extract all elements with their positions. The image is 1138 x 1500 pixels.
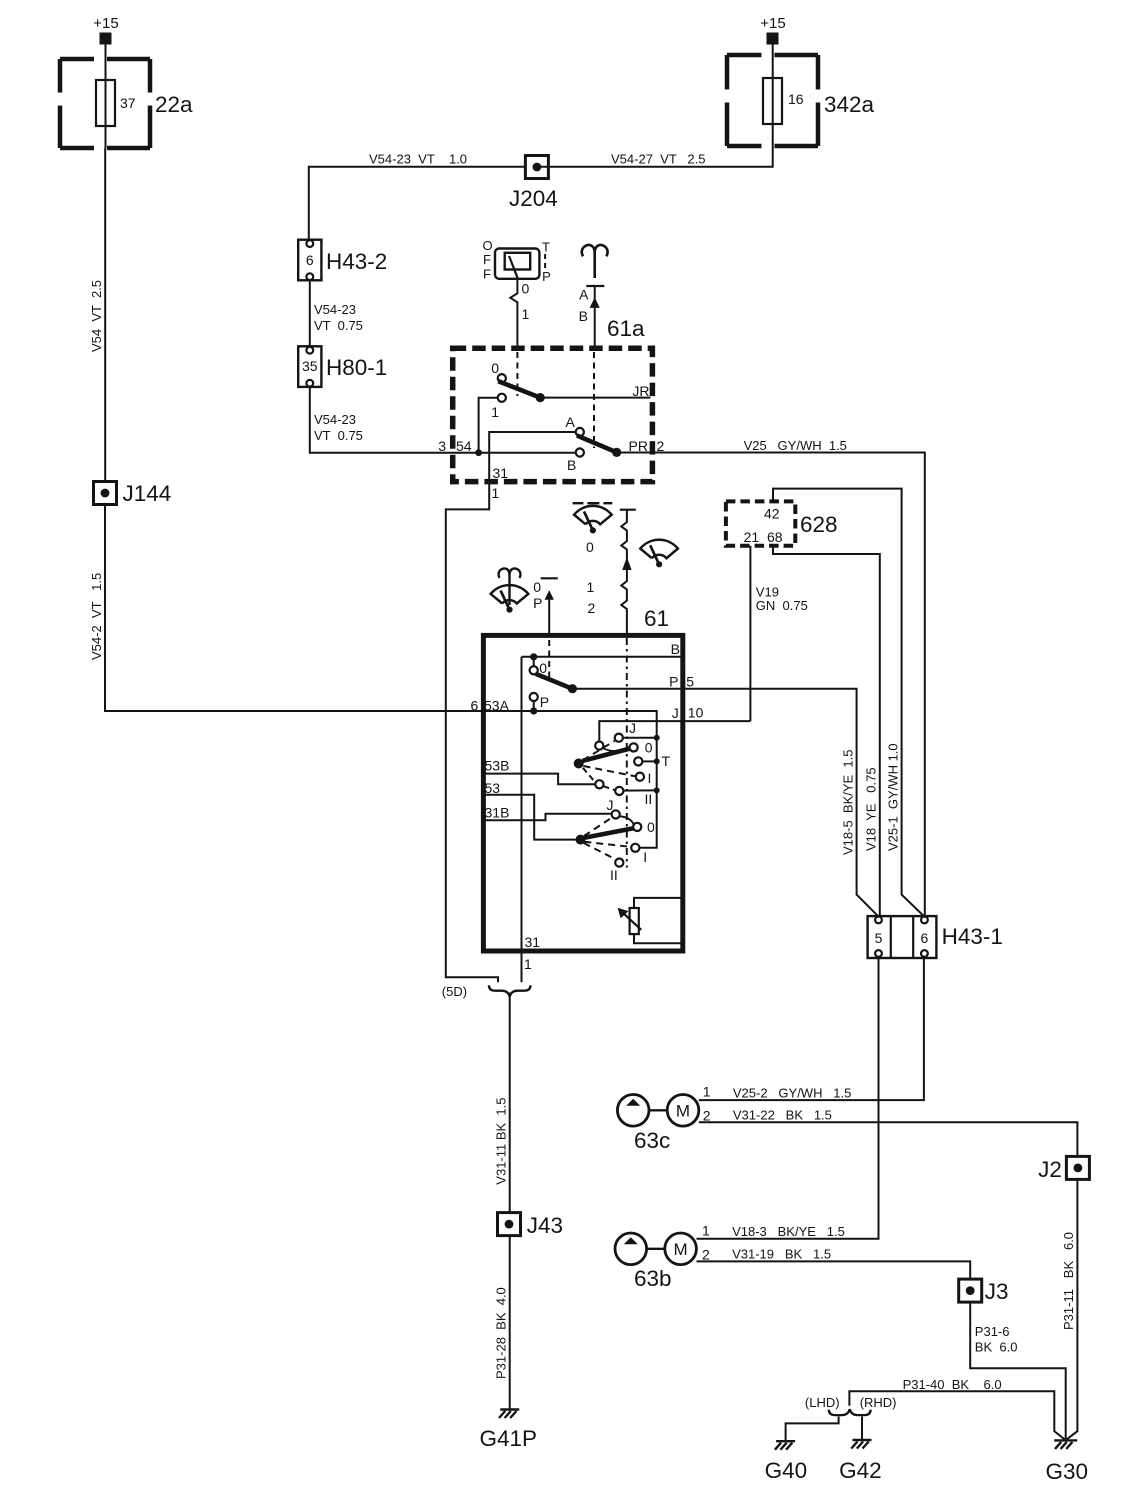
svg-text:G40: G40 (765, 1458, 808, 1483)
fuse box 22a (105, 59, 107, 148)
svg-text:P31-40 BK 6.0: P31-40 BK 6.0 (903, 1377, 1002, 1392)
fuse box 342a (772, 55, 774, 146)
svg-text:1: 1 (522, 306, 530, 322)
washer pump / wiper motor 63c (617, 1095, 649, 1127)
wire V31-11 BK 1.5 (509, 993, 511, 1213)
svg-text:10: 10 (688, 705, 704, 721)
svg-text:37: 37 (120, 95, 136, 111)
svg-text:J204: J204 (509, 186, 558, 211)
connector H80-1 (298, 346, 321, 387)
svg-text:V18-3 BK/YE 1.5: V18-3 BK/YE 1.5 (732, 1224, 845, 1239)
B line (522, 656, 683, 658)
svg-text:JR: JR (632, 383, 649, 399)
node B junction (530, 653, 537, 660)
svg-text:0: 0 (522, 281, 530, 297)
wire 628 pin68 V18 YE 0.75 (773, 546, 880, 917)
wiper symbol (single speed) (640, 540, 678, 558)
linkage (dashed) wash (548, 640, 550, 677)
svg-text:61a: 61a (607, 316, 645, 341)
53B line (483, 774, 595, 785)
rail junction J (654, 735, 660, 741)
svg-text:V54-27 VT 2.5: V54-27 VT 2.5 (611, 152, 705, 167)
wire V25 GY/WH 1.5 (652, 453, 924, 917)
wire P31-40 BK 6.0 (849, 1391, 1065, 1439)
svg-text:5: 5 (686, 674, 694, 690)
svg-text:II: II (645, 791, 653, 807)
ground G41P (500, 1408, 519, 1410)
svg-text:B: B (567, 457, 576, 473)
svg-text:V54-23 VT 1.0: V54-23 VT 1.0 (369, 152, 467, 167)
wire 61a pin31 to (5D) (446, 482, 498, 983)
rail 31 (left) (521, 657, 523, 951)
svg-text:63b: 63b (634, 1266, 672, 1291)
svg-text:A: A (579, 287, 589, 303)
junction J144 (94, 482, 117, 505)
svg-text:0: 0 (491, 360, 499, 376)
svg-text:1: 1 (524, 956, 532, 972)
wire V54 VT 2.5 (104, 148, 106, 482)
svg-text:V25-1 GY/WH 1.0: V25-1 GY/WH 1.0 (886, 743, 901, 851)
wire V54-27 VT 2.5 (537, 146, 773, 167)
wiper symbol (intermittent, parked) (573, 502, 584, 504)
svg-text:V54-23: V54-23 (314, 302, 356, 317)
svg-text:J2: J2 (1038, 1157, 1062, 1182)
svg-text:V25-2 GY/WH 1.5: V25-2 GY/WH 1.5 (733, 1086, 852, 1101)
svg-text:P31-6: P31-6 (975, 1324, 1010, 1339)
ground G30 (1054, 1439, 1077, 1441)
wire V25-2 GY/WH 1.5 (63c pin1 to H43-1 pin6) (699, 957, 924, 1100)
svg-text:5: 5 (875, 930, 883, 946)
svg-text:VT 0.75: VT 0.75 (314, 428, 363, 443)
junction J43 (498, 1213, 521, 1236)
svg-text:P: P (533, 595, 542, 611)
ground G40 (776, 1440, 795, 1442)
wire 628 pin42 V25-1 GY/WH 1.0 (773, 489, 924, 917)
svg-text:P31-11 BK 6.0: P31-11 BK 6.0 (1061, 1232, 1076, 1330)
linkage (dashed) from stalk (593, 352, 595, 448)
wire P31-28 BK 4.0 (509, 1236, 511, 1409)
svg-text:M: M (674, 1240, 688, 1259)
svg-text:53: 53 (485, 780, 501, 796)
svg-text:6: 6 (921, 930, 929, 946)
washer/wiper symbol (491, 585, 529, 603)
wire V31-22 BK 1.5 (63c pin2 to J2) (699, 1122, 1078, 1157)
svg-text:V31-22 BK 1.5: V31-22 BK 1.5 (733, 1108, 832, 1123)
svg-text:P: P (540, 694, 549, 710)
wire V54-23 VT 0.75 (lower) (310, 387, 576, 453)
svg-text:1: 1 (702, 1222, 710, 1238)
svg-text:6: 6 (471, 698, 479, 714)
svg-text:35: 35 (302, 358, 318, 374)
wire with detent 0/1 to 61a (510, 279, 517, 348)
relay box 61a (453, 348, 653, 481)
junction J3 (959, 1279, 982, 1302)
wire V54-23 VT 0.75 (upper) (309, 280, 311, 346)
svg-text:B: B (579, 308, 588, 324)
svg-text:I: I (648, 770, 652, 786)
svg-text:PR: PR (629, 438, 648, 454)
svg-text:T: T (662, 753, 671, 769)
wash switch in 61 (533, 657, 535, 667)
svg-text:V31-19 BK 1.5: V31-19 BK 1.5 (732, 1247, 831, 1262)
svg-text:G42: G42 (839, 1458, 882, 1483)
svg-text:+15: +15 (760, 15, 785, 32)
svg-text:O: O (482, 238, 492, 253)
svg-text:31: 31 (525, 934, 541, 950)
svg-text:63c: 63c (634, 1128, 670, 1153)
rail junction T (654, 758, 660, 764)
svg-text:53A: 53A (484, 698, 510, 714)
svg-text:A: A (566, 414, 576, 430)
svg-text:V31-11 BK 1.5: V31-11 BK 1.5 (494, 1097, 509, 1184)
linkage (dashed) from detent switch (516, 352, 518, 396)
svg-text:22a: 22a (155, 92, 193, 117)
P-5 line (572, 688, 682, 690)
wire 61 pin5 to H43-1 pin5 (683, 689, 879, 917)
svg-text:42: 42 (764, 506, 780, 522)
wire contact A to pin 31 (489, 432, 576, 482)
svg-text:F: F (483, 252, 491, 267)
svg-text:V54 VT 2.5: V54 VT 2.5 (89, 280, 104, 352)
wiper switch box 61 (483, 635, 682, 951)
svg-text:(LHD): (LHD) (805, 1395, 840, 1410)
wire P31-11 BK 6.0 (J2 to G30) (1067, 1179, 1078, 1439)
svg-text:1: 1 (491, 404, 499, 420)
rail junction II (654, 787, 660, 793)
control module 628 (726, 501, 795, 545)
svg-text:I: I (643, 849, 647, 865)
svg-text:V54-23: V54-23 (314, 412, 356, 427)
wire 61 pin31 to (5D) (521, 951, 523, 982)
53 line (483, 795, 576, 840)
speed selector switch (wiper) (595, 742, 603, 750)
washer pump / wiper motor 63b (615, 1233, 647, 1265)
wire to G42 (RHD) (861, 1417, 863, 1440)
svg-text:6: 6 (306, 252, 314, 268)
J-10 line (599, 721, 750, 741)
31B line (483, 814, 611, 820)
svg-text:+15: +15 (93, 15, 118, 32)
svg-text:V54-2 VT 1.5: V54-2 VT 1.5 (89, 573, 104, 660)
wire V54-23 VT 1.0 (309, 167, 526, 240)
svg-text:H43-1: H43-1 (942, 924, 1003, 949)
svg-text:(5D): (5D) (442, 984, 467, 999)
svg-text:2: 2 (703, 1108, 711, 1124)
svg-text:53B: 53B (485, 758, 510, 774)
svg-text:P: P (542, 269, 551, 284)
svg-text:H80-1: H80-1 (326, 355, 387, 380)
svg-text:GN 0.75: GN 0.75 (756, 598, 808, 613)
wire contact1 to node 54 (479, 398, 498, 453)
svg-text:II: II (610, 867, 618, 883)
svg-text:1: 1 (587, 579, 595, 595)
connector H43-1 (868, 916, 937, 958)
svg-text:J43: J43 (527, 1213, 563, 1238)
svg-text:B: B (671, 641, 680, 657)
column stalk symbol (582, 245, 608, 278)
wire P31-6 BK 6.0 (J3 to G30) (970, 1302, 1065, 1439)
svg-text:H43-2: H43-2 (326, 249, 387, 274)
svg-text:F: F (483, 267, 491, 282)
position bar A/B with arrow (586, 285, 604, 287)
svg-text:J: J (672, 705, 679, 721)
wire 628 pin21 V19 GN 0.75 (749, 546, 751, 721)
svg-text:G30: G30 (1046, 1459, 1089, 1484)
svg-text:0: 0 (645, 740, 653, 756)
ground G42 (853, 1439, 872, 1441)
svg-text:P31-28 BK 4.0: P31-28 BK 4.0 (494, 1287, 509, 1379)
svg-text:21 68: 21 68 (744, 529, 783, 545)
junction J2 (1066, 1156, 1089, 1179)
junction J204 (525, 156, 548, 179)
node P junction (530, 707, 537, 714)
svg-text:2: 2 (588, 600, 596, 616)
linkage (dash-dot) speed selector (626, 638, 628, 868)
svg-text:31: 31 (493, 465, 509, 481)
svg-text:J3: J3 (985, 1279, 1009, 1304)
rheostat wire with arrow (620, 509, 636, 511)
svg-text:1: 1 (703, 1084, 711, 1100)
svg-text:BK 6.0: BK 6.0 (975, 1340, 1018, 1355)
svg-text:628: 628 (800, 512, 838, 537)
svg-text:0: 0 (586, 539, 594, 555)
svg-text:VT 0.75: VT 0.75 (314, 318, 363, 333)
svg-text:0: 0 (533, 579, 541, 595)
connector H43-2 (298, 240, 321, 281)
svg-text:M: M (676, 1101, 690, 1120)
wire V18-3 BK/YE 1.5 (H43-1 pin5 to 63b pin1) (697, 957, 879, 1239)
svg-text:2: 2 (702, 1247, 710, 1263)
svg-text:31B: 31B (485, 805, 510, 821)
svg-text:61: 61 (644, 606, 669, 631)
svg-text:1: 1 (492, 485, 500, 501)
53A line (483, 711, 656, 848)
svg-text:342a: 342a (824, 92, 875, 117)
variable resistor (interval) (634, 898, 683, 908)
svg-text:(RHD): (RHD) (860, 1395, 897, 1410)
svg-text:54: 54 (456, 438, 472, 454)
wash pushbar 0/P (541, 577, 558, 579)
svg-text:16: 16 (788, 91, 804, 107)
svg-text:P: P (669, 674, 678, 690)
svg-text:J144: J144 (123, 481, 172, 506)
svg-text:V18-5 BK/YE 1.5: V18-5 BK/YE 1.5 (841, 749, 856, 855)
svg-text:J: J (629, 720, 636, 736)
svg-text:V18 YE 0.75: V18 YE 0.75 (864, 767, 879, 851)
svg-text:0: 0 (647, 819, 655, 835)
wire V31-19 BK 1.5 (63b pin2 to J3) (697, 1261, 971, 1279)
wire V54-2 VT 1.5 (105, 505, 483, 712)
node 54 junction (475, 449, 482, 456)
svg-text:V25 GY/WH 1.5: V25 GY/WH 1.5 (744, 438, 847, 453)
transfer brace (5D) (489, 985, 531, 997)
svg-text:T: T (542, 240, 550, 255)
svg-text:3: 3 (438, 438, 446, 454)
svg-text:G41P: G41P (480, 1426, 538, 1451)
wire to G40 (LHD) (786, 1417, 839, 1442)
